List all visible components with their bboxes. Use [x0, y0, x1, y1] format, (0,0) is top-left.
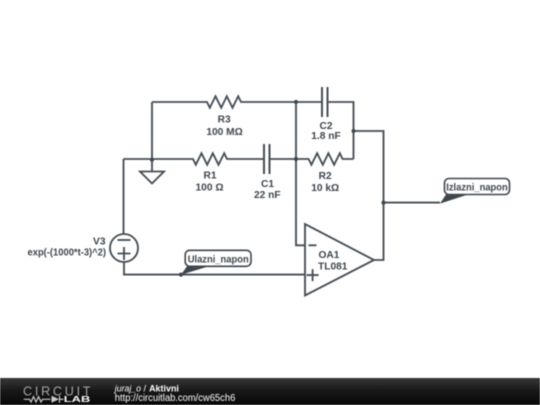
svg-text:TL081: TL081	[318, 261, 348, 272]
svg-text:10 kΩ: 10 kΩ	[311, 183, 339, 194]
svg-text:R1: R1	[203, 170, 216, 181]
svg-text:LAB: LAB	[64, 394, 91, 404]
svg-text:100 MΩ: 100 MΩ	[206, 127, 242, 138]
svg-text:OA1: OA1	[319, 250, 340, 261]
svg-text:22 nF: 22 nF	[254, 190, 281, 201]
svg-text:R2: R2	[319, 171, 332, 182]
svg-text:exp(-(1000*t-3)^2): exp(-(1000*t-3)^2)	[28, 248, 107, 259]
svg-text:V3: V3	[93, 236, 106, 247]
svg-text:1.8 nF: 1.8 nF	[311, 131, 340, 142]
svg-text:R3: R3	[218, 115, 231, 126]
svg-text:100 Ω: 100 Ω	[196, 182, 224, 193]
svg-text:Izlazni_napon: Izlazni_napon	[446, 183, 508, 194]
svg-text:Ulazni_napon: Ulazni_napon	[188, 254, 249, 265]
svg-text:http://circuitlab.com/cw65ch6: http://circuitlab.com/cw65ch6	[115, 393, 236, 404]
svg-text:C1: C1	[261, 179, 274, 190]
